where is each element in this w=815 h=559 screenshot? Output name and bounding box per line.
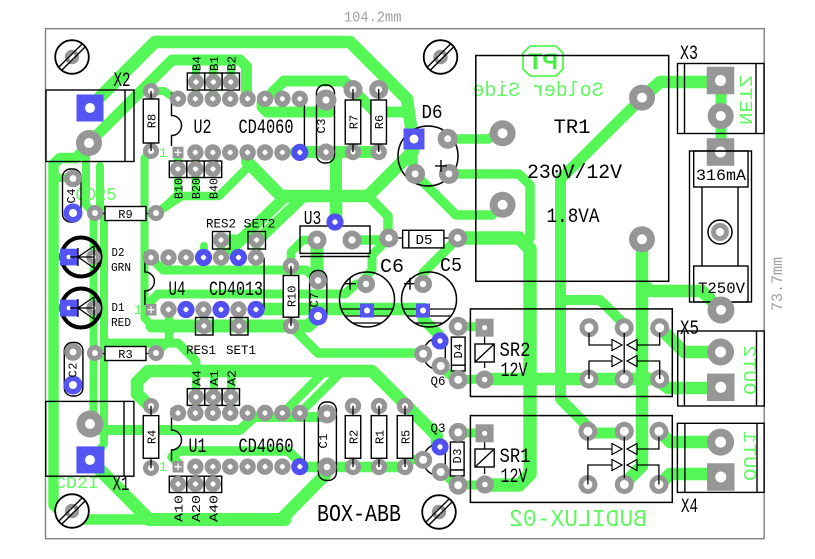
pad Q3 emitter bbox=[432, 463, 450, 481]
svg-text:X3: X3 bbox=[680, 43, 698, 66]
pad U2 pin 13 bbox=[222, 91, 238, 107]
pad SR1 contact top x659 bbox=[649, 422, 668, 441]
pad X2 blue square bbox=[77, 95, 104, 122]
pad R1 bottom bbox=[371, 459, 387, 475]
wire R3 right pad jog up bbox=[156, 343, 166, 353]
wire U4 pad stub to R3 band bbox=[165, 310, 174, 341]
relay SR2 outline bbox=[470, 309, 672, 397]
coil symbol SR1 bbox=[484, 442, 486, 449]
svg-text:A10: A10 bbox=[173, 495, 187, 522]
resistor R7 bbox=[352, 89, 354, 100]
pad C3 top bbox=[316, 90, 337, 111]
pad C3 bottom bbox=[318, 144, 335, 161]
svg-text:CD2I: CD2I bbox=[55, 475, 99, 494]
wire D4 bottom to SR2 coil pad bbox=[458, 379, 480, 380]
wire C4 stub bbox=[55, 174, 65, 182]
svg-text:GRN: GRN bbox=[111, 261, 131, 275]
pad R7 bottom bbox=[345, 144, 361, 160]
resistor R5 bbox=[404, 406, 406, 416]
pad U1 bottom 5 bbox=[239, 459, 255, 475]
wire Q6 emitter to D4 bbox=[440, 366, 456, 380]
svg-text:D1: D1 bbox=[112, 301, 125, 315]
wire SR1 contact to X4 round bbox=[659, 431, 714, 442]
wire R10 pad to Q6 band bbox=[291, 326, 423, 353]
svg-text:R5: R5 bbox=[400, 430, 414, 444]
svg-text:B10: B10 bbox=[173, 178, 187, 199]
svg-text:Q6: Q6 bbox=[431, 374, 446, 389]
pad R5 bottom bbox=[397, 459, 413, 475]
wire junction down to via U3 bbox=[330, 196, 343, 222]
IC U4 outline bbox=[145, 253, 155, 305]
wire bottom bus riser to C1 pad bbox=[281, 470, 327, 520]
pad R5 top bbox=[397, 398, 413, 414]
pad R4 top bbox=[143, 398, 159, 414]
pad U1 bottom 3 bbox=[205, 459, 221, 475]
diode bridge D6 bbox=[398, 126, 458, 186]
pad C5 plus bbox=[414, 275, 432, 293]
transistor Q6 bbox=[423, 338, 445, 370]
svg-text:BUDILUX-02: BUDILUX-02 bbox=[509, 507, 647, 534]
pad U3 left bbox=[308, 231, 327, 250]
svg-text:C4: C4 bbox=[65, 189, 79, 204]
svg-text:X5: X5 bbox=[680, 318, 699, 341]
pad U2 pin 11 bbox=[257, 91, 273, 107]
svg-text:B20: B20 bbox=[190, 178, 204, 199]
pad U3 right bbox=[343, 231, 362, 250]
svg-text:D6: D6 bbox=[422, 102, 443, 124]
pad U4 top 7 bbox=[248, 249, 264, 265]
pad X5 square bbox=[707, 374, 735, 402]
resistor R10 bbox=[290, 266, 292, 276]
svg-text:D5: D5 bbox=[416, 233, 433, 249]
pad C2 top bbox=[64, 343, 82, 361]
svg-text:PT: PT bbox=[527, 49, 558, 74]
pad U1 bottom 4 bbox=[222, 459, 238, 475]
wire R10 top jog bbox=[291, 240, 313, 266]
resistor R4 bbox=[150, 406, 152, 416]
wire R5 bottom to Q3 bbox=[405, 458, 423, 467]
wire U3 right pad to D5 bbox=[352, 235, 388, 245]
pad U2 pin 16 bbox=[170, 91, 186, 107]
pad U4 bottom 2 bbox=[160, 301, 176, 317]
wire A header stubs bbox=[192, 371, 200, 413]
svg-text:A2: A2 bbox=[226, 370, 240, 386]
wire TR1 top right pad to X3 bbox=[642, 82, 712, 98]
pad U4 bottom 6 bbox=[230, 301, 246, 317]
svg-text:C3: C3 bbox=[315, 119, 329, 134]
pad R8 top bbox=[143, 83, 159, 99]
pad R6 top bbox=[369, 80, 388, 99]
svg-text:R7: R7 bbox=[348, 115, 362, 129]
svg-text:230V/12V: 230V/12V bbox=[527, 162, 622, 185]
wire D1 cathode stub bbox=[55, 304, 63, 312]
pad D4 bottom bbox=[449, 370, 468, 389]
IC U3 bbox=[300, 226, 370, 253]
resistor R1 bbox=[378, 406, 380, 416]
mounting hole top left bbox=[55, 40, 89, 74]
svg-text:RED: RED bbox=[111, 316, 131, 330]
svg-text:C1: C1 bbox=[317, 434, 331, 449]
svg-text:D4: D4 bbox=[452, 344, 466, 359]
svg-text:1: 1 bbox=[159, 460, 167, 476]
via U4 bottom 3 bbox=[177, 301, 194, 318]
pad SR1 contact bottom x588 bbox=[578, 475, 597, 494]
svg-text:12V: 12V bbox=[501, 360, 528, 383]
svg-text:SET2: SET2 bbox=[244, 218, 276, 232]
pad D3 top bbox=[449, 423, 468, 442]
diode symbol D2 bbox=[70, 246, 94, 268]
wire SET2 stub to U4 bbox=[253, 240, 261, 257]
pad U1 pin1 square bbox=[173, 461, 184, 473]
wire x642 branch to fuse pad T250V bbox=[642, 283, 721, 310]
svg-text:CD4060: CD4060 bbox=[239, 436, 294, 459]
pad C1 top bbox=[318, 405, 337, 424]
wire junction to D5 left pad bbox=[368, 196, 388, 238]
logo PT bbox=[523, 46, 563, 76]
svg-text:1: 1 bbox=[159, 146, 167, 162]
wire RES2 to U4 fan bbox=[225, 238, 244, 257]
pad SR2 coil bottom bbox=[476, 371, 494, 389]
IC U2 outline bbox=[172, 94, 182, 147]
jumper SET1 bbox=[231, 318, 249, 336]
pad U2 pin 14 bbox=[205, 91, 221, 107]
pad R4 bottom bbox=[143, 460, 159, 476]
wire U4 row to blue squares C6 C5 bbox=[256, 303, 423, 316]
pad U4 top 2 bbox=[160, 249, 176, 265]
pad SR2 coil square bbox=[476, 319, 494, 337]
wire TR1 pad to vertical x567 bbox=[561, 98, 643, 433]
pad C1 bottom bbox=[318, 458, 337, 477]
pad fuse middle bbox=[708, 220, 732, 244]
connector X2 bbox=[46, 90, 134, 162]
wire X1 pad to U1 to C1 band bbox=[91, 415, 327, 430]
svg-text:U1: U1 bbox=[189, 436, 207, 459]
pad SR1 contact bottom x659 bbox=[649, 475, 668, 494]
svg-text:X4: X4 bbox=[681, 496, 698, 519]
svg-text:C2: C2 bbox=[67, 363, 81, 378]
header A10 A20 A40 bbox=[169, 476, 186, 492]
pad TR1 p1 bbox=[490, 120, 516, 146]
via U4 bottom 5 bbox=[212, 301, 229, 318]
pad U2 pin 5 bbox=[239, 144, 255, 160]
pad U1 top 5 bbox=[239, 405, 255, 421]
pad U1 bottom 7 bbox=[274, 459, 290, 475]
svg-text:C7: C7 bbox=[308, 293, 322, 308]
svg-text:R2: R2 bbox=[348, 430, 362, 444]
pad U4 top 3 bbox=[178, 249, 194, 265]
transformer TR1 outline bbox=[476, 56, 669, 282]
pad U2 pin 4 bbox=[222, 144, 238, 160]
svg-text:316mA: 316mA bbox=[696, 167, 747, 185]
svg-text:A4: A4 bbox=[191, 370, 205, 386]
pad U4 bottom 4 bbox=[195, 301, 211, 317]
wire U4 pin1 row to C6 band bbox=[151, 284, 366, 310]
pad SR2 contact top x660 bbox=[650, 318, 669, 337]
svg-text:C5: C5 bbox=[440, 255, 462, 277]
transistor Q3 bbox=[423, 444, 445, 476]
pad X1 round bbox=[77, 411, 104, 438]
svg-text:CD4060: CD4060 bbox=[239, 117, 294, 140]
pad C7 top bbox=[309, 272, 327, 290]
pad R10 bottom bbox=[283, 318, 299, 334]
via U4 top 6 bbox=[230, 249, 247, 266]
pad R2 top bbox=[345, 398, 361, 414]
resistor R3 bbox=[95, 353, 105, 355]
pad U2 pin 6 bbox=[257, 144, 273, 160]
pad R6 bottom bbox=[371, 144, 387, 160]
wire D3 top to SR1 square bbox=[458, 429, 478, 438]
svg-text:X1: X1 bbox=[113, 474, 130, 497]
wire hook top around C3 bbox=[284, 81, 404, 112]
relay SR1 outline bbox=[470, 416, 672, 503]
svg-text:NETZ: NETZ bbox=[734, 75, 754, 125]
pad SR2 contact bottom x624 bbox=[615, 370, 634, 389]
via U3 blue bbox=[326, 213, 343, 230]
wire D5 right pad to C5 plus bbox=[423, 238, 458, 284]
pad U1 bottom 6 bbox=[257, 459, 273, 475]
jumper RES2 bbox=[213, 232, 231, 250]
pad SR2 contact top x624 bbox=[615, 318, 634, 337]
plus mark D6 bbox=[435, 160, 447, 172]
diode symbol D1 bbox=[70, 297, 94, 319]
pad X3 square bbox=[707, 67, 735, 95]
wire header stubs B4 B1 B2 up bbox=[192, 60, 200, 82]
jumper SET2 bbox=[248, 232, 266, 250]
wire U4 top row band y270 bbox=[151, 258, 317, 280]
pad U4 top 1 bbox=[143, 249, 159, 265]
svg-text:BOX-ABB: BOX-ABB bbox=[317, 502, 401, 529]
wire ground rail left vertical bbox=[54, 143, 151, 520]
capacitor C1 bbox=[318, 402, 336, 481]
wire C3-R7-R6 bottom row link bbox=[296, 146, 378, 158]
connector X4 bbox=[677, 423, 764, 492]
svg-text:B2: B2 bbox=[226, 56, 240, 71]
wire blue square to D6 pad bbox=[408, 151, 418, 168]
resistor R8 bbox=[150, 91, 152, 99]
via U1 pin9 blue bbox=[291, 458, 308, 475]
pad SR1 contact top x588 bbox=[578, 422, 597, 441]
pad D6 blue square bbox=[404, 129, 425, 150]
wire R9 right to B20 and U2 bbox=[156, 157, 247, 213]
pad U1 bottom 2 bbox=[187, 459, 203, 475]
pad SR2 contact bottom x660 bbox=[650, 370, 669, 389]
svg-text:U4: U4 bbox=[169, 279, 186, 302]
pad C6 blue square bbox=[360, 304, 374, 318]
resistor R6 bbox=[378, 89, 380, 100]
wire band y451 U1 pin1 to via bbox=[172, 451, 300, 463]
svg-text:73.7mm: 73.7mm bbox=[769, 257, 787, 311]
wire hook left to C3 pad bbox=[262, 81, 330, 112]
connector X3 bbox=[678, 64, 765, 134]
pad D6 minus bbox=[405, 164, 425, 184]
wire D6 pad to TR1 pad upper bbox=[448, 134, 497, 139]
wire D6 right pad to vertical x531 bbox=[448, 174, 530, 238]
svg-text:D3: D3 bbox=[451, 449, 465, 464]
svg-text:Solder Side: Solder Side bbox=[473, 80, 604, 103]
header A4 A1 A2 bbox=[187, 389, 204, 406]
header B10 B20 B40 bbox=[169, 161, 186, 178]
svg-text:T250V: T250V bbox=[698, 280, 746, 298]
pad R2 bottom bbox=[345, 459, 361, 475]
wire SR2 coil pad to X5 square bbox=[485, 379, 712, 388]
pad D4 top bbox=[449, 317, 468, 336]
pad U1 top 4 bbox=[222, 405, 238, 421]
wire D6 pad to TR1 lower pad band bbox=[415, 174, 502, 215]
wire band through U1 A header bbox=[137, 371, 437, 444]
wire X2 pad chain down LEDs to X1 bbox=[86, 143, 94, 421]
svg-text:Q3: Q3 bbox=[431, 421, 446, 436]
wire RES2 stub to U4 bbox=[217, 240, 225, 257]
svg-text:104.2mm: 104.2mm bbox=[344, 10, 402, 26]
LED D1 bbox=[62, 289, 101, 328]
coil symbol SR2 bbox=[484, 337, 486, 344]
svg-text:R10: R10 bbox=[286, 286, 300, 308]
pad Q3 base blue bbox=[431, 438, 448, 455]
pad R8 bottom bbox=[143, 143, 159, 159]
connector X1 bbox=[46, 401, 134, 476]
diode D3 bbox=[450, 442, 464, 470]
pad C7 bottom blue bbox=[309, 307, 328, 326]
svg-text:B1: B1 bbox=[208, 56, 222, 71]
pad R7 top bbox=[344, 80, 363, 99]
wire D5 right pad to long vertical x531 down to SR1 coil bbox=[458, 238, 530, 485]
wire D2 cathode stub bbox=[55, 253, 63, 261]
wire diag feeds U1 top pads bbox=[283, 374, 322, 413]
pad C6 plus bbox=[357, 275, 375, 293]
diode D5 bbox=[403, 230, 444, 248]
wire U3 pad down to C7 bbox=[311, 240, 324, 280]
pad U2 pin1 square bbox=[173, 147, 184, 159]
pad TR1 s1 bbox=[629, 85, 655, 111]
pad SR1 contact top x624 bbox=[615, 422, 634, 441]
wire R3 band to A header zone bbox=[104, 343, 196, 371]
wire junction diag to RES2 bbox=[224, 198, 284, 240]
svg-text:1: 1 bbox=[134, 303, 142, 319]
wire RES1 SET1 band bbox=[152, 317, 318, 326]
svg-text:1.8VA: 1.8VA bbox=[547, 206, 600, 229]
diode D4 bbox=[451, 337, 465, 365]
connector X5 bbox=[678, 331, 765, 406]
pad TR1 s2 bbox=[629, 226, 655, 252]
svg-text:SET1: SET1 bbox=[226, 344, 256, 358]
svg-text:CD4013: CD4013 bbox=[209, 279, 263, 302]
wire top power trace X2 to D6 bbox=[90, 42, 412, 134]
svg-text:U2: U2 bbox=[194, 117, 212, 140]
capacitor C7 bbox=[310, 271, 327, 324]
resistor R2 bbox=[352, 406, 354, 416]
pad X4 round bbox=[707, 429, 734, 456]
wire TR1 right bottom pad down x642 bbox=[624, 239, 642, 484]
pad X1 blue square bbox=[76, 446, 104, 473]
pad D3 bottom bbox=[449, 476, 468, 495]
IC U1 outline bbox=[172, 409, 182, 462]
capacitor C6 bbox=[340, 272, 395, 327]
pad U1 top 1 bbox=[170, 405, 186, 421]
wire RES1 stub bbox=[200, 310, 208, 326]
pad SR1 coil square bbox=[476, 424, 494, 442]
pad SR2 contact bottom x589 bbox=[580, 370, 599, 389]
pad R1 top bbox=[371, 398, 387, 414]
wire junction up to C3 row bbox=[330, 152, 342, 196]
wire branch x567 to SR2 contact bbox=[561, 300, 625, 328]
pad U2 pin 3 bbox=[205, 144, 221, 160]
wire U2 pad feed to center junction band A bbox=[247, 158, 368, 196]
pad C5 blue square bbox=[416, 304, 430, 318]
pad U1 top 2 bbox=[187, 405, 203, 421]
resistor R9 bbox=[95, 213, 105, 215]
wire stub above U4 pad bbox=[200, 246, 208, 257]
pad R10 top bbox=[283, 258, 299, 274]
pad U4 top 5 bbox=[213, 249, 229, 265]
wire X3 square to X3 round and fuse bbox=[716, 84, 727, 148]
pad TR1 p2 bbox=[490, 192, 516, 218]
pad SR2 contact top x589 bbox=[580, 318, 599, 337]
pad C2 bottom blue bbox=[64, 376, 83, 395]
svg-text:U3: U3 bbox=[304, 208, 322, 230]
pad D6 ac2 bbox=[439, 164, 459, 184]
svg-text:OUT1: OUT1 bbox=[738, 431, 758, 481]
pad Q6 collector bbox=[414, 345, 432, 363]
header B4 B1 B2 bbox=[187, 73, 204, 90]
plus mark C6 bbox=[344, 278, 356, 290]
wire bottom row bus C1 R2 R1 R5 bbox=[300, 462, 405, 473]
svg-text:OUT2: OUT2 bbox=[738, 345, 758, 395]
pad SR1 contact bottom x624 bbox=[615, 475, 634, 494]
svg-text:RES1: RES1 bbox=[186, 344, 216, 358]
capacitor C2 bbox=[64, 343, 83, 397]
wire SET1 stub bbox=[235, 310, 243, 326]
svg-text:R8: R8 bbox=[146, 114, 160, 128]
pad Q6 emitter bbox=[432, 357, 450, 375]
svg-text:C6: C6 bbox=[380, 256, 404, 278]
svg-text:R3: R3 bbox=[118, 348, 132, 362]
capacitor C5 bbox=[402, 272, 457, 327]
wire inner top trace X2 pad to header and U2 bbox=[89, 60, 247, 143]
svg-text:R6: R6 bbox=[373, 115, 387, 129]
pad X2 round bbox=[76, 130, 102, 156]
mounting hole bottom left bbox=[55, 494, 89, 528]
mounting hole top middle bbox=[424, 40, 458, 74]
svg-text:TR1: TR1 bbox=[554, 117, 591, 140]
pad U2 pin 9 bbox=[292, 91, 308, 107]
capacitor C3 bbox=[317, 85, 335, 163]
pad C4 bottom blue bbox=[64, 204, 83, 223]
pad SR1 coil bottom bbox=[476, 476, 494, 494]
svg-text:R1: R1 bbox=[374, 430, 388, 444]
svg-text:A40: A40 bbox=[208, 495, 222, 522]
wire D3 bottom to SR1 coil bbox=[458, 481, 478, 490]
pad fuse bottom bbox=[708, 297, 735, 324]
wire D4 top to SR2 square bbox=[458, 326, 480, 327]
pad X4 square bbox=[707, 463, 735, 491]
via U2 pin9 blue bbox=[291, 144, 308, 161]
pad D6 ac1 bbox=[438, 129, 458, 149]
wire D5 left pad to C6 plus bbox=[366, 238, 389, 284]
wire R8 top to U2 pin bbox=[151, 91, 173, 97]
pad U2 pin 12 bbox=[239, 91, 255, 107]
wire B10 header stubs to U2 bottom row bbox=[174, 152, 182, 169]
wire Q3 emitter to D3 bbox=[440, 470, 455, 484]
svg-text:X2: X2 bbox=[114, 70, 131, 93]
wire junction diag to D6 blue square bbox=[368, 151, 413, 196]
svg-text:B4: B4 bbox=[191, 56, 205, 71]
wire X1 blue pad to bottom bus bbox=[90, 460, 285, 520]
svg-text:RES2: RES2 bbox=[206, 218, 236, 232]
plus mark C5 bbox=[404, 278, 416, 290]
wire B4 header stubs to U2 top row bbox=[192, 82, 200, 98]
jumper RES1 bbox=[196, 318, 214, 336]
pad U1 top 8 bbox=[292, 405, 308, 421]
